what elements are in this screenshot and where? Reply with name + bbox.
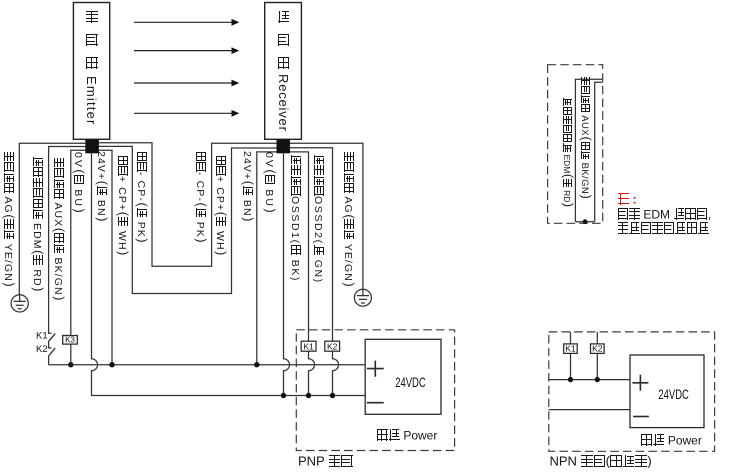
junction dot K2/0V bus [330,393,335,398]
PNP dashed enclosure [296,330,454,451]
wire emitter CP+ U-link to receiver CP+ [99,146,277,293]
relay coil K1 box PNP [301,341,316,351]
junction dot AUX/24V bus [68,362,73,367]
label receiver CP+ [214,155,226,256]
light beam arrow 4 [134,112,232,114]
receiver connector [277,139,291,153]
wire emitter AUX [71,150,86,365]
wire K1 stub NPN [570,332,572,380]
wire receiver 0V with hop [284,153,290,395]
junction dot 0V receiver/0V bus [281,393,286,398]
emitter name english [85,76,98,126]
24VDC power box PNP [365,339,441,414]
contact K1 [49,333,56,341]
note line 1 [617,208,711,221]
label emitter CP- [136,151,148,243]
svg-text:24VDC: 24VDC [658,386,689,402]
wire emitter 0V with hop over 24V bus, then 0V bus [92,153,366,395]
label note-box AUX [580,76,591,199]
NPN caption [550,455,652,468]
wire receiver OSSD1 to K1 coil [290,152,315,396]
svg-text:K1: K1 [36,331,48,342]
junction dot 24V+ emitter/bus [109,362,114,367]
wire EDM lower to 24V bus [48,356,50,365]
emitter name chinese [86,11,99,24]
NPN dashed enclosure [549,332,715,451]
label receiver AG [343,151,355,287]
relay coil K1 box NPN [564,344,578,354]
wire receiver AG to ground [290,143,363,289]
label emitter EDM [32,156,44,292]
minus terminal PNP [367,402,384,404]
relay coil K2 box PNP [325,341,340,351]
light beam arrow 1 [134,21,232,23]
contact K2 [49,348,56,356]
power label PNP [376,429,437,442]
note title red [617,193,637,206]
label note-box EDM [562,97,573,208]
label emitter AUX [52,157,64,301]
wire emitter 24V+ [99,150,112,365]
receiver box [265,3,302,140]
svg-text:K2: K2 [36,344,48,355]
emitter box [73,3,109,140]
label emitter AG [2,151,14,287]
receiver name chinese [277,11,290,24]
emitter connector [85,139,99,153]
K3 relay box on AUX wire [63,336,78,345]
label receiver 24V+ [242,151,254,222]
24VDC power box NPN [630,355,704,428]
wire emitter AG to ground [19,143,85,295]
wire emitter CP- U-link to receiver CP- [99,143,277,266]
svg-text:K1: K1 [565,344,576,354]
ground left [11,295,28,312]
junction dot K1/0V bus [306,393,311,398]
label emitter CP+ [117,155,129,256]
label receiver CP- [194,151,206,243]
plus terminal PNP [367,361,384,377]
junction dot 24V+ receiver/bus [254,362,259,367]
svg-text:K1: K1 [303,341,314,351]
AUX wire in note [595,82,603,222]
minus terminal NPN [633,416,649,418]
EDM wire in note [575,79,602,222]
label emitter 0V [73,152,85,213]
light beam arrow 2 [134,50,232,52]
plus terminal NPN [632,375,648,391]
wire receiver 24V+ [257,152,277,365]
svg-text:K3: K3 [65,336,75,345]
EDM-AUX short wire [575,221,594,223]
light beam arrow 3 [134,82,232,84]
wire emitter EDM upper [49,147,86,334]
24V+ bus [49,364,366,366]
EDM note dashed enclosure [548,65,603,224]
note line 2 [617,222,709,235]
wire K2 stub NPN [596,332,598,380]
junction dot K2 NPN [595,377,600,382]
power label NPN [641,434,702,447]
label emitter 24V+ [96,151,108,222]
label receiver OSSD1 [289,154,301,282]
label receiver 0V [263,152,275,213]
NPN upper wire to plus [549,379,630,381]
wire EDM middle [49,341,52,348]
NPN lower wire to minus [549,409,630,411]
junction dot EDM short [583,219,588,224]
svg-text:K2: K2 [327,341,338,351]
junction dot K1 NPN [568,377,573,382]
svg-text:K2: K2 [592,344,603,354]
ground right [354,289,371,306]
label receiver OSSD2 [313,154,325,284]
svg-text:24VDC: 24VDC [395,374,426,390]
receiver name english [277,74,290,132]
PNP caption [298,455,353,468]
wire receiver OSSD2 to K2 coil [290,148,339,396]
relay coil K2 box NPN [591,344,605,354]
